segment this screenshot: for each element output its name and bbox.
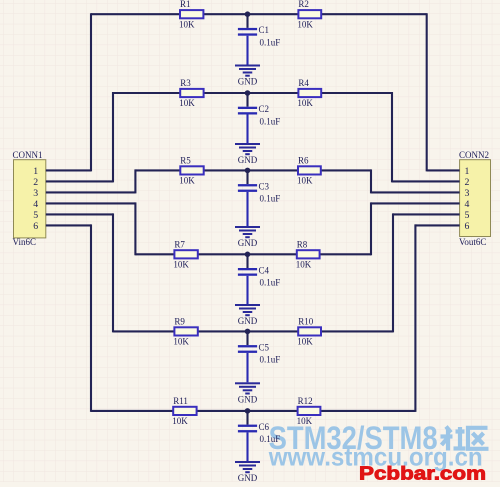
wire C4 to ground row 4 [246,276,248,304]
svg-text:R11: R11 [173,396,188,406]
wire CONN2 pin 6 to row 6 [415,224,459,226]
wire row 6 horizontal [91,410,415,412]
svg-text:C6: C6 [259,422,270,432]
node junction row 2 [245,90,251,96]
svg-text:10K: 10K [297,98,313,108]
svg-text:0.1uF: 0.1uF [260,38,281,48]
svg-text:Vin6C: Vin6C [13,237,36,247]
svg-text:4: 4 [465,199,470,210]
svg-text:5: 5 [33,210,38,221]
resistor R1 10K [179,0,203,29]
svg-text:R10: R10 [298,316,314,326]
resistor R3 10K [179,78,203,108]
ground row 5 [235,382,260,404]
svg-text:0.1uF: 0.1uF [260,116,281,126]
wire CONN1 pin 2 to row 2 [46,180,113,182]
capacitor C5 0.1uF [238,342,280,364]
wire row 2 horizontal [113,92,392,94]
resistor R12 10K [297,396,321,426]
wire CONN2 pin 1 to row 1 [427,169,460,171]
svg-text:0.1uF: 0.1uF [260,434,281,444]
wire CONN2 pin 3 to row 3 [371,191,460,193]
ground row 2 [235,143,260,165]
svg-text:R7: R7 [174,239,185,249]
wire C3 to ground row 3 [246,192,248,226]
node junction row 3 [245,168,251,174]
svg-text:3: 3 [465,188,470,199]
wire CONN1 pin 4 to row 4 [46,202,136,204]
svg-text:2: 2 [33,177,38,188]
capacitor C6 0.1uF [238,422,280,444]
svg-text:GND: GND [238,473,258,482]
ground row 3 [235,226,260,248]
svg-text:0.1uF: 0.1uF [260,278,281,288]
wire C2 to ground row 2 [246,115,248,144]
svg-text:5: 5 [465,210,470,221]
svg-text:10K: 10K [297,416,313,426]
wire row 1 horizontal [91,13,427,15]
capacitor C4 0.1uF [238,265,280,287]
wire CONN1 pin 6 to row 6 [46,224,91,226]
svg-text:R2: R2 [298,0,309,9]
connector CONN2 [460,160,491,237]
resistor R5 10K [179,155,203,185]
svg-text:C2: C2 [259,104,270,114]
svg-text:10K: 10K [296,260,312,270]
resistor R7 10K [173,239,197,269]
ground row 4 [235,304,260,326]
svg-text:C4: C4 [259,265,270,275]
wire CONN2 pin 2 to row 2 [392,180,460,182]
svg-text:10K: 10K [173,337,189,347]
svg-text:R12: R12 [298,396,313,406]
capacitor C1 0.1uF [238,25,280,47]
svg-text:GND: GND [238,394,258,404]
ground row 1 [235,65,260,87]
svg-text:R8: R8 [297,239,308,249]
resistor R10 10K [297,316,321,346]
svg-text:C3: C3 [259,181,270,191]
svg-text:C5: C5 [259,342,270,352]
wire junction to C5 [246,331,248,345]
svg-text:10K: 10K [297,337,313,347]
watermark CJK QU [468,428,489,449]
wire row 3 horizontal [135,169,371,171]
resistor R9 10K [173,316,197,346]
svg-text:10K: 10K [179,176,195,186]
svg-text:R5: R5 [180,155,191,165]
connector CONN1 [14,160,46,238]
watermark CJK SHE [441,427,466,451]
svg-text:10K: 10K [179,19,195,29]
node junction row 4 [245,252,251,258]
svg-text:CONN2: CONN2 [459,150,489,160]
resistor R4 10K [297,78,321,108]
wire row 5 horizontal [113,330,393,332]
svg-text:GND: GND [238,238,258,248]
resistor R2 10K [297,0,321,29]
node junction row 5 [245,329,251,335]
svg-text:3: 3 [33,188,38,199]
svg-text:R9: R9 [174,316,185,326]
ground row 6 [235,461,260,483]
resistor R6 10K [297,155,321,185]
capacitor C2 0.1uF [238,104,280,126]
svg-text:10K: 10K [179,98,195,108]
wire junction to C2 [246,93,248,107]
svg-text:R4: R4 [298,78,309,88]
wire CONN1 pin 3 to row 3 [46,191,136,193]
node junction row 1 [245,11,251,17]
svg-text:R1: R1 [180,0,191,9]
svg-text:6: 6 [465,221,470,232]
svg-text:10K: 10K [172,416,188,426]
wire row 4 horizontal [135,253,371,255]
wire CONN2 pin 5 to row 5 [393,213,460,215]
svg-text:R6: R6 [298,155,309,165]
svg-text:6: 6 [33,221,38,232]
svg-text:GND: GND [238,155,258,165]
svg-text:CONN1: CONN1 [13,150,43,160]
svg-text:10K: 10K [173,260,189,270]
svg-text:2: 2 [465,177,470,188]
wire CONN1 pin 1 to row 1 [46,169,91,171]
svg-text:R3: R3 [180,78,191,88]
svg-text:1: 1 [465,166,470,177]
wire CONN2 pin 4 to row 4 [371,202,460,204]
svg-text:0.1uF: 0.1uF [260,355,281,365]
svg-text:GND: GND [238,316,258,326]
svg-text:1: 1 [33,166,38,177]
wire CONN1 pin 5 to row 5 [46,213,113,215]
wire C1 to ground row 1 [246,36,248,65]
svg-text:10K: 10K [297,19,313,29]
svg-text:Vout6C: Vout6C [459,237,486,247]
wire C5 to ground row 5 [246,353,248,382]
wire C6 to ground row 6 [246,432,248,461]
svg-text:0.1uF: 0.1uF [260,194,281,204]
svg-text:GND: GND [238,77,258,87]
node junction row 6 [245,408,251,414]
svg-text:10K: 10K [297,176,313,186]
resistor R11 10K [172,396,196,426]
wire junction to C6 [246,411,248,425]
resistor R8 10K [296,239,320,269]
svg-text:4: 4 [33,199,38,210]
wire junction to C4 [246,254,248,268]
svg-text:C1: C1 [259,25,270,35]
wire junction to C3 [246,170,248,184]
svg-text:Pcbbar.com: Pcbbar.com [359,463,486,483]
capacitor C3 0.1uF [238,181,280,203]
wire junction to C1 [246,14,248,28]
